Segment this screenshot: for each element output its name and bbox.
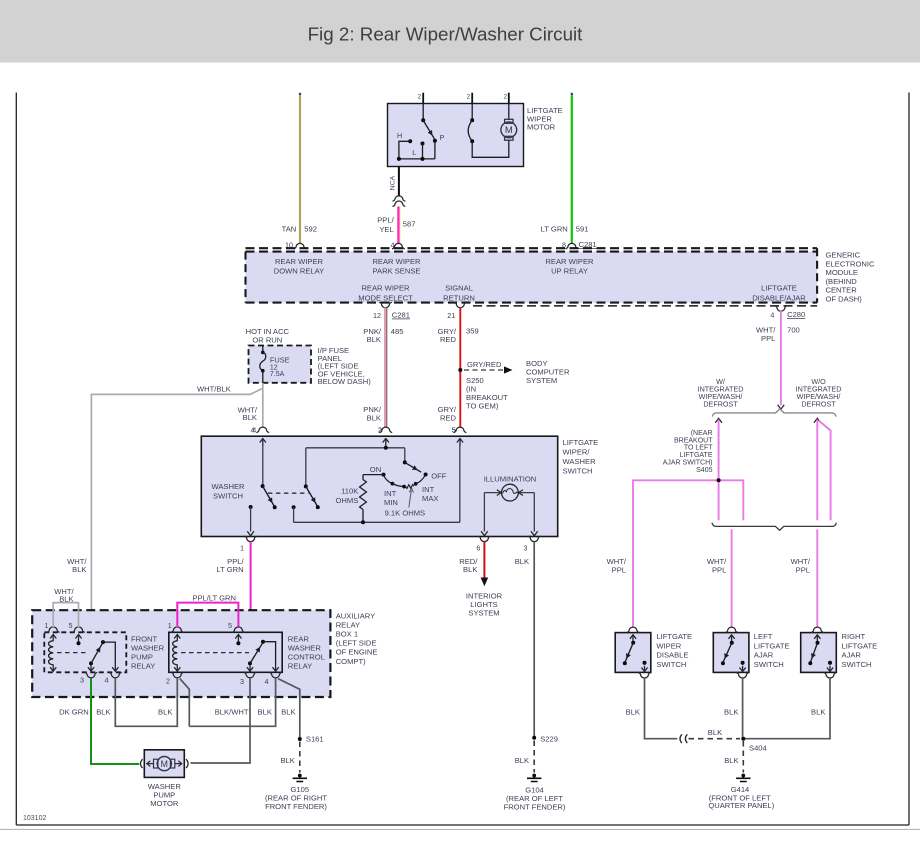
svg-text:3: 3 — [240, 677, 244, 686]
wire WHT/PPL right branch offshoot — [819, 421, 831, 521]
front relay pin 4 — [105, 672, 122, 684]
svg-text:MIN: MIN — [384, 498, 398, 507]
front relay pin 5 — [69, 621, 85, 641]
washer switch 2 common — [304, 484, 308, 488]
wire pin2 to switch common — [422, 104, 424, 121]
svg-text:RIGHT: RIGHT — [842, 632, 866, 641]
svg-text:CENTER: CENTER — [826, 286, 858, 295]
label LIFTGATE DISABLE/AJAR — [752, 284, 806, 303]
svg-text:M: M — [161, 759, 168, 769]
svg-text:587: 587 — [403, 220, 416, 229]
label BLK/WHT — [215, 708, 249, 717]
svg-text:BLK: BLK — [626, 707, 640, 716]
svg-text:BLK: BLK — [367, 335, 381, 344]
svg-text:2: 2 — [504, 94, 508, 101]
rotary resistive arc — [384, 475, 426, 489]
wire H to bottom rail — [399, 141, 410, 159]
wire BLK rear pin2 to pin4 — [180, 678, 276, 727]
park sense contact top — [470, 118, 474, 122]
auxiliary relay box 1 — [32, 610, 330, 697]
rear washer control relay box — [169, 632, 282, 672]
wire BLK to S229 — [533, 542, 535, 738]
svg-text:RELAY: RELAY — [336, 621, 360, 630]
svg-text:H: H — [397, 131, 402, 140]
splice S229 — [532, 735, 558, 744]
wire WHT/PPL to S405 — [718, 420, 720, 481]
wire WHT/BLK fuse to switch — [262, 383, 264, 428]
svg-text:RED: RED — [440, 335, 457, 344]
label WHT/BLK vert — [238, 405, 258, 434]
svg-text:RELAY: RELAY — [288, 662, 312, 671]
wire pin to motor — [508, 104, 510, 120]
wire WHT/PPL to left ajar switch — [731, 529, 733, 627]
svg-text:(LEFT SIDE: (LEFT SIDE — [336, 639, 377, 648]
motor M symbol — [501, 119, 517, 140]
svg-text:REAR WIPER: REAR WIPER — [361, 284, 410, 293]
svg-text:FRONT FENDER): FRONT FENDER) — [265, 802, 327, 811]
label LEFT LIFTGATE AJAR SWITCH — [754, 632, 790, 669]
label 9.1K OHMS — [385, 488, 426, 517]
label AUXILIARY RELAY BOX 1 — [336, 612, 378, 666]
svg-text:DEFROST: DEFROST — [703, 399, 738, 408]
svg-text:RED: RED — [440, 414, 457, 423]
fuse 12 7.5A — [260, 346, 290, 384]
label REAR WASHER CONTROL RELAY — [288, 635, 325, 671]
wire BLK dashed to G414 — [724, 741, 743, 773]
frame bottom edge — [16, 824, 909, 826]
rear relay pin 5 — [228, 621, 245, 641]
label (NEAR BREAKOUT TO LEFT LIFTGATE AJAR SWITCH) S405 — [663, 430, 714, 474]
gem pin 4 C280 bottom — [770, 306, 805, 320]
label BLK (rear pin2) — [158, 708, 172, 717]
svg-text:RETURN: RETURN — [443, 293, 475, 302]
svg-text:ELECTRONIC: ELECTRONIC — [826, 259, 875, 268]
switch blade to P — [423, 120, 434, 139]
svg-text:BLK: BLK — [724, 707, 738, 716]
label REAR WIPER MODE SELECT — [358, 284, 413, 303]
branch arrow right — [814, 418, 821, 423]
svg-text:BLK: BLK — [708, 728, 722, 737]
label PPL/LT GRN — [216, 557, 244, 574]
svg-text:WASHER: WASHER — [131, 644, 165, 653]
contact ON — [370, 465, 386, 477]
svg-text:2: 2 — [166, 677, 170, 686]
svg-text:LIFTGATE: LIFTGATE — [842, 641, 878, 650]
washer pump motor box — [144, 750, 184, 778]
front relay pin5 contact — [77, 641, 81, 645]
svg-text:BELOW DASH): BELOW DASH) — [318, 377, 372, 386]
gem pin 8 top — [562, 240, 597, 250]
svg-text:PPL: PPL — [761, 334, 775, 343]
front relay mech link — [57, 652, 88, 654]
svg-text:L: L — [412, 148, 416, 157]
svg-text:S161: S161 — [306, 734, 324, 743]
svg-text:C280: C280 — [787, 310, 805, 319]
wire pin4 to washer contact — [262, 446, 264, 486]
svg-text:591: 591 — [576, 225, 589, 234]
svg-text:FRONT: FRONT — [131, 635, 158, 644]
svg-text:SWITCH: SWITCH — [754, 660, 784, 669]
svg-text:INT: INT — [384, 489, 397, 498]
svg-text:SWITCH: SWITCH — [213, 491, 243, 500]
svg-text:1: 1 — [240, 544, 244, 553]
label BODY COMPUTER SYSTEM — [526, 359, 570, 385]
merge brace (lower) — [712, 523, 836, 531]
svg-text:PPL: PPL — [796, 565, 810, 574]
svg-text:BLK: BLK — [158, 708, 172, 717]
label REAR WIPER PARK SENSE — [372, 257, 421, 276]
label G105 — [265, 785, 327, 811]
wire LT GRN 591 — [571, 93, 573, 244]
label LIFTGATE WIPER MOTOR — [527, 106, 563, 132]
rear relay pin 4 — [265, 672, 283, 686]
branch arrow left — [715, 418, 722, 423]
switch pin 1 bottom — [240, 536, 257, 552]
label NCA (rotated) — [390, 175, 397, 190]
svg-text:PPL: PPL — [612, 565, 626, 574]
inline connector (NCA) — [393, 196, 406, 207]
label WHT/BLK staple — [54, 587, 74, 604]
svg-text:6: 6 — [476, 544, 480, 553]
wire BLK dashed to G104 — [515, 741, 534, 773]
wire L to rail — [421, 144, 425, 161]
wire TAN 592 — [299, 93, 301, 244]
wire lamp left down — [481, 493, 488, 536]
rotary pivot — [403, 460, 407, 464]
label WASHER PUMP MOTOR — [148, 782, 182, 808]
front relay pin 3 — [80, 672, 97, 684]
svg-text:110K: 110K — [341, 487, 358, 496]
rail junction at resistor — [361, 520, 365, 524]
header band — [0, 0, 920, 63]
label BLK (left ajar) — [724, 707, 738, 716]
washer switch mech link — [268, 492, 309, 494]
svg-text:WHT/BLK: WHT/BLK — [197, 384, 231, 393]
rear relay pin 2 — [166, 672, 184, 685]
resistor 110K OHMS — [336, 475, 367, 523]
label REAR WIPER UP RELAY — [545, 257, 594, 276]
label GRY/RED lower — [438, 405, 457, 435]
wire PPL/YEL 587 — [398, 207, 400, 244]
svg-text:(NEAR: (NEAR — [691, 430, 713, 437]
right liftgate ajar switch — [801, 627, 837, 678]
wire RED/BLK — [481, 542, 489, 587]
GEM module box — [246, 248, 818, 306]
front relay contact to pin4 — [103, 642, 118, 671]
washer switch 1 blade — [263, 486, 275, 507]
svg-text:QUARTER PANEL): QUARTER PANEL) — [708, 801, 774, 810]
contact OFF — [424, 472, 447, 481]
svg-text:4: 4 — [770, 311, 774, 320]
wire PPL/LT GRN pin1-pin5 staple — [177, 603, 238, 628]
svg-text:RELAY: RELAY — [131, 662, 155, 671]
svg-text:BLK: BLK — [243, 413, 257, 422]
wire S405 to disable switch — [633, 480, 719, 627]
liftgate wiper motor box — [388, 104, 524, 167]
washer switch 2 blade end — [316, 505, 320, 509]
label W/O INTEGRATED WIPE/WASH/DEFROST — [796, 377, 842, 409]
figure number 103102 — [23, 815, 46, 822]
svg-text:PPL: PPL — [712, 565, 726, 574]
front relay switch blade — [89, 640, 105, 665]
svg-text:4: 4 — [265, 677, 269, 686]
svg-text:REAR WIPER: REAR WIPER — [275, 257, 324, 266]
svg-text:7.5A: 7.5A — [270, 371, 285, 378]
contact P — [433, 133, 445, 143]
wire BLK rear pin4 to S161 — [278, 679, 300, 738]
liftgate wiper/washer switch box — [201, 436, 557, 536]
switch pin 3 bottom — [523, 536, 540, 552]
svg-text:FUSE: FUSE — [270, 355, 290, 364]
label WHT/PPL (disable) — [607, 557, 627, 575]
svg-text:BLK: BLK — [72, 565, 86, 574]
svg-text:5: 5 — [69, 621, 73, 630]
svg-text:1: 1 — [45, 621, 49, 630]
wire P to rail — [434, 141, 436, 159]
label BLK (right ajar) — [811, 707, 825, 716]
svg-text:MODE SELECT: MODE SELECT — [358, 293, 413, 302]
park sense contact bottom — [470, 139, 474, 143]
wire S405 right down — [719, 480, 744, 520]
ground G105 — [293, 774, 307, 782]
svg-text:LIFTGATE: LIFTGATE — [754, 641, 790, 650]
svg-text:1: 1 — [168, 621, 172, 630]
wire WHT/PPL right branch — [816, 420, 818, 521]
svg-text:592: 592 — [304, 225, 317, 234]
svg-text:FRONT FENDER): FRONT FENDER) — [504, 802, 566, 811]
label PNK/BLK 485 — [363, 327, 403, 344]
svg-text:BLK: BLK — [280, 756, 294, 765]
svg-text:INT: INT — [422, 485, 435, 494]
switch common node — [421, 118, 425, 122]
splice S404 — [741, 737, 766, 753]
label TAN 592 — [282, 225, 317, 234]
label W/ INTEGRATED WIPE/WASH/DEFROST — [698, 377, 744, 409]
svg-text:DK GRN: DK GRN — [59, 708, 89, 717]
label FRONT WASHER PUMP RELAY — [131, 635, 165, 671]
wire PPL/LT GRN — [238, 542, 250, 628]
motor pin stub 2 (left) — [418, 93, 424, 104]
svg-text:OF DASH): OF DASH) — [826, 295, 863, 304]
svg-text:BLK: BLK — [96, 708, 110, 717]
gem pin 12 bottom — [373, 302, 410, 320]
wht/ppl arrowhead into bracket — [778, 405, 785, 410]
svg-text:WIPER: WIPER — [656, 641, 681, 650]
svg-text:MOTOR: MOTOR — [527, 123, 556, 132]
svg-text:LT GRN: LT GRN — [541, 225, 568, 234]
rotary blade — [405, 462, 421, 472]
wire rail up to pin 5 — [459, 446, 461, 522]
svg-text:LIFTGATE: LIFTGATE — [563, 438, 599, 447]
svg-text:ON: ON — [370, 465, 381, 474]
svg-text:C281: C281 — [392, 311, 410, 320]
wire WHT/BLK pin1-pin5 staple — [53, 603, 78, 628]
washer switch 2 contact — [292, 505, 296, 509]
rear relay pivot to pin3 — [247, 663, 253, 671]
svg-text:SWITCH: SWITCH — [656, 660, 686, 669]
washer switch 2 blade — [306, 486, 318, 506]
svg-text:LIFTGATE: LIFTGATE — [680, 452, 713, 459]
label WHT/BLK left col — [67, 557, 87, 574]
label INT MIN — [384, 489, 398, 507]
splice S161 — [298, 734, 324, 743]
label G414 — [708, 785, 774, 810]
svg-text:SYSTEM: SYSTEM — [526, 376, 557, 385]
label WASHER SWITCH — [211, 482, 245, 500]
svg-text:OHMS: OHMS — [336, 496, 359, 505]
svg-text:M: M — [505, 125, 513, 136]
svg-text:S229: S229 — [540, 735, 558, 744]
front relay pin 1 — [45, 621, 60, 641]
label PPL/LT GRN staple — [192, 593, 236, 602]
wire ON to resistor — [363, 474, 384, 476]
svg-text:LT GRN: LT GRN — [216, 565, 243, 574]
svg-text:SYSTEM: SYSTEM — [468, 608, 499, 617]
svg-text:BLK: BLK — [258, 708, 272, 717]
gem pin 4 top — [391, 241, 405, 250]
rear relay mech link — [181, 652, 249, 654]
wire S405 down — [718, 480, 720, 520]
rail exit junction — [397, 157, 401, 161]
wire contact to pin 1 — [247, 507, 254, 536]
svg-text:MODULE: MODULE — [826, 268, 859, 277]
ground G414 — [736, 774, 750, 782]
svg-text:GENERIC: GENERIC — [826, 251, 861, 260]
frame left edge — [15, 93, 17, 826]
svg-text:MOTOR: MOTOR — [150, 799, 179, 808]
svg-text:REAR: REAR — [288, 635, 310, 644]
svg-text:2: 2 — [418, 94, 422, 101]
svg-text:BLK: BLK — [515, 557, 529, 566]
label BLK (S161 col) — [281, 708, 295, 717]
svg-text:YEL: YEL — [379, 225, 393, 234]
wire BLK dashed to G105 — [280, 742, 299, 773]
label LIFTGATE WIPER DISABLE SWITCH — [656, 632, 692, 669]
label PNK/BLK lower — [363, 405, 382, 435]
svg-text:4: 4 — [105, 676, 109, 685]
wire BLK front pin4 to rear pin2 — [115, 678, 177, 727]
svg-text:UP RELAY: UP RELAY — [551, 267, 588, 276]
svg-text:AUXILIARY: AUXILIARY — [336, 612, 376, 621]
svg-text:Fig 2: Rear Wiper/Washer Circu: Fig 2: Rear Wiper/Washer Circuit — [308, 24, 584, 45]
washer pump motor symbol — [141, 757, 189, 771]
wire pin2 rail — [306, 446, 405, 450]
svg-text:DEFROST: DEFROST — [801, 399, 836, 408]
washer switch 1 contact — [249, 505, 253, 509]
label BLK (rear pin4) — [258, 708, 272, 717]
wire DK GRN pin3 to pump — [91, 678, 139, 764]
svg-text:TAN: TAN — [282, 225, 297, 234]
label BLK (front pin4) — [96, 708, 110, 717]
svg-text:2: 2 — [467, 94, 471, 101]
gem pin 10 top — [285, 241, 306, 250]
label RIGHT LIFTGATE AJAR SWITCH — [842, 632, 878, 669]
rear relay pin 1 — [168, 621, 184, 641]
ground G104 — [527, 774, 541, 782]
wire contact2 to bottom rail — [293, 507, 295, 522]
label ILLUMINATION — [484, 475, 537, 484]
svg-text:BLK: BLK — [724, 756, 738, 765]
svg-text:SWITCH: SWITCH — [842, 660, 872, 669]
label LT GRN 591 — [541, 225, 589, 234]
liftgate wiper disable switch — [615, 627, 651, 678]
svg-text:COMPT): COMPT) — [336, 657, 366, 666]
wire rail to washer2 common — [305, 448, 307, 487]
label WHT/BLK branch — [197, 384, 231, 393]
branch bracket (upper) — [712, 409, 836, 417]
svg-text:PUMP: PUMP — [131, 653, 153, 662]
illumination lamp — [484, 484, 534, 501]
switch pin 5 top — [452, 426, 467, 447]
washer switch 1 common — [261, 484, 265, 488]
page divider line — [0, 828, 920, 830]
svg-text:BLK: BLK — [59, 595, 73, 604]
rear relay contact to pin4 — [263, 642, 279, 672]
svg-text:BLK: BLK — [515, 756, 529, 765]
motor pin stub 2 (right) — [504, 93, 509, 104]
svg-text:AJAR: AJAR — [842, 651, 862, 660]
svg-text:ILLUMINATION: ILLUMINATION — [484, 475, 537, 484]
switch pin 2 top — [378, 426, 392, 447]
motor bottom rail left — [399, 158, 435, 160]
svg-text:CONTROL: CONTROL — [288, 653, 325, 662]
svg-text:SWITCH: SWITCH — [563, 467, 593, 476]
svg-text:359: 359 — [466, 327, 479, 336]
svg-text:SIGNAL: SIGNAL — [445, 284, 473, 293]
svg-text:3: 3 — [80, 676, 84, 685]
svg-text:OF ENGINE: OF ENGINE — [336, 648, 378, 657]
svg-text:BOX 1: BOX 1 — [336, 630, 358, 639]
wire BLK disable switch down — [645, 678, 678, 739]
svg-text:WASHER: WASHER — [211, 482, 245, 491]
rear relay coil — [173, 641, 181, 672]
wire WHT/PPL 700 — [780, 311, 782, 405]
svg-text:BLK: BLK — [811, 707, 825, 716]
switch pin 4 top — [251, 426, 270, 447]
label PPL/YEL — [377, 216, 415, 235]
wire BLK dashed to S404 — [689, 728, 741, 739]
contact L — [412, 142, 424, 158]
label LIFTGATE WIPER/WASHER SWITCH — [563, 438, 599, 476]
front washer pump relay box — [44, 632, 126, 672]
svg-text:DISABLE/AJAR: DISABLE/AJAR — [752, 293, 806, 302]
svg-text:21: 21 — [447, 311, 455, 320]
svg-text:12: 12 — [373, 311, 381, 320]
svg-text:WASHER: WASHER — [288, 644, 322, 653]
wire BLK right ajar down — [743, 678, 830, 739]
svg-text:REAR WIPER: REAR WIPER — [372, 257, 421, 266]
svg-text:S404: S404 — [749, 744, 767, 753]
label G104 — [504, 785, 566, 811]
label DK GRN — [59, 708, 89, 717]
svg-text:LIFTGATE: LIFTGATE — [761, 284, 797, 293]
svg-text:DOWN RELAY: DOWN RELAY — [274, 267, 325, 276]
park sense arc — [468, 120, 472, 141]
label GENERIC ELECTRONIC MODULE — [826, 251, 875, 304]
wire park to motor — [472, 140, 509, 157]
label RED/BLK — [459, 557, 478, 574]
label WHT/PPL (right ajar) — [791, 557, 811, 575]
svg-text:S405: S405 — [696, 467, 712, 474]
fuse box — [249, 346, 312, 383]
wire BLK left ajar down — [742, 678, 744, 739]
svg-text:GRY/RED: GRY/RED — [467, 360, 502, 369]
wire PNK/BLK 485 — [385, 308, 387, 428]
rear relay pin5 contact — [236, 641, 240, 645]
svg-text:OR RUN: OR RUN — [252, 335, 282, 344]
svg-text:AJAR SWITCH): AJAR SWITCH) — [663, 459, 713, 466]
svg-text:P: P — [440, 133, 445, 142]
